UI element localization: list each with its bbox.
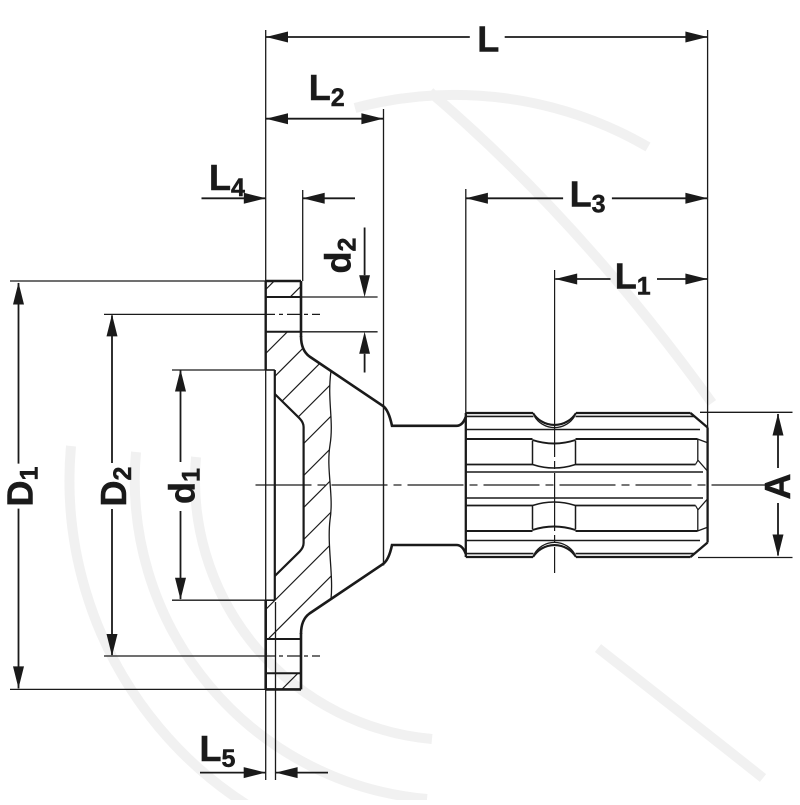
flange left face [265,281,267,370]
dimension D1 (flange outer diameter) [18,283,20,464]
bolt hole top: edges [266,296,301,298]
main axis [256,484,312,486]
dimension d1 (pilot recess diameter) [180,371,182,463]
extension lines A (spline OD) [700,411,793,413]
extension line L5 right (recess bottom) [275,602,277,780]
end face [465,413,467,557]
OD bottom [466,556,533,558]
hub face edge [383,405,385,566]
dimension D2 (bolt circle diameter) [111,315,113,463]
hatching (section) [0,270,733,700]
flange top edge [266,280,301,283]
flange outline [266,281,304,689]
dimension L (overall length) [266,36,470,38]
flange bottom edge [266,688,301,691]
bolt hole centre bottom [104,655,262,657]
recess mouth edges [266,369,275,371]
dimension L1 (groove to shaft end) [555,278,610,280]
dimension L4 (flange thickness) [202,197,266,199]
chamfer edge rings [466,415,534,417]
dimension A (spline outer diameter) [777,414,779,468]
right chamfers and edge [691,413,708,428]
extension lines D1 (flange OD) [10,280,266,282]
OD top [466,412,533,414]
flange right face [300,281,303,337]
bolt hole bottom: edges [266,638,301,640]
extension lines d2 (bolt hole edges) [301,296,378,298]
extension line L4 right (flange back face) [302,190,304,281]
dimension d2 (bolt hole diameter) arrows [364,228,366,276]
bottom notch [533,545,576,557]
splined shaft [466,413,708,557]
wavy break line [329,371,332,599]
extension line L3 left (spline end face) [465,189,467,413]
extension lines d1 (recess edges) [172,369,266,371]
extension line L / L3 / L1 right (shaft end) [707,30,709,428]
extension line L2 right / hub face edge [383,109,385,405]
bore wall and pocket [274,370,276,600]
hub cone silhouette [301,336,466,634]
top notch [533,413,576,425]
center lines [104,270,770,656]
dimension L2 (hub length) [266,118,383,120]
dimension L3 (spline length) [466,197,563,199]
dimension L5 (recess depth) [200,772,266,774]
thin lines near OD [466,429,700,431]
bolt hole centre top [104,313,262,315]
extension line flange face (L / L2 / L4 / L5 left) [265,30,267,281]
groove centre / L1 extension [554,270,556,457]
svg-text:L: L [477,19,499,60]
lower groove band [466,530,533,532]
watermark arcs [69,92,763,805]
svg-text:A: A [757,474,798,500]
upper groove band [466,438,533,440]
